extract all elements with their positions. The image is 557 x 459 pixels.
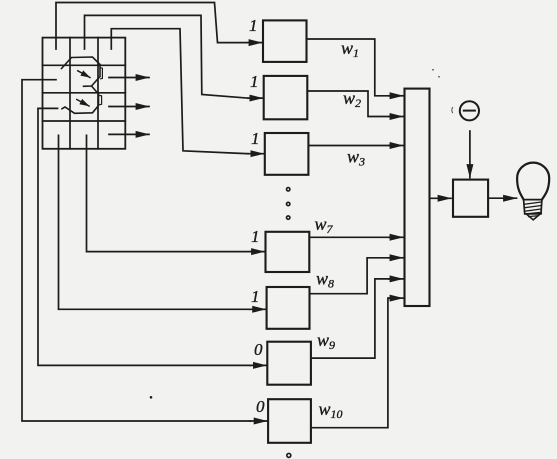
stray dot speck: [150, 396, 153, 399]
arrow into A8: [250, 308, 266, 310]
lamp bulb glass: [517, 163, 549, 200]
grid row line 3: [43, 120, 126, 122]
wire w3 from A3 to summator: [308, 145, 389, 147]
arrow w8 into summator: [389, 257, 403, 259]
lamp tip hatch: [529, 215, 539, 218]
arrow into A3: [248, 153, 264, 155]
arrow into A9: [250, 364, 266, 366]
unit A8 box: [267, 287, 310, 329]
wire tap left row2 to A10: [22, 80, 250, 421]
svg-text:0: 0: [254, 340, 263, 359]
wire tap top cell3 to A3: [111, 29, 248, 154]
lamp tip: [526, 214, 540, 220]
wire tap bottom col1 to A8: [59, 135, 251, 309]
bracket mark lower: [100, 96, 102, 105]
wire w7 from A7 to summator: [309, 236, 389, 238]
unit A1 box: [263, 20, 307, 62]
speck dot 2: [438, 76, 440, 78]
lamp screw thread 4: [526, 212, 542, 214]
arrow w1 into summator: [389, 95, 403, 97]
svg-text:w7: w7: [315, 214, 334, 236]
arrow w7 into summator: [389, 236, 403, 238]
svg-text:w3: w3: [347, 147, 365, 169]
arrow into A7: [250, 251, 265, 253]
grid right output arrow row3: [109, 106, 149, 108]
threshold arrow down into unit: [469, 131, 471, 178]
wire tap bottom col2 to A7: [87, 135, 251, 251]
svg-text:0: 0: [256, 397, 265, 416]
wire tap top cell1 to A1: [56, 3, 248, 50]
wire w10 from A10 to summator: [311, 298, 389, 428]
svg-text:1: 1: [251, 227, 260, 246]
lamp screw base: [524, 200, 542, 214]
grid column line 2: [97, 38, 99, 149]
wire summator to output unit: [430, 197, 452, 199]
unit A9 box: [267, 342, 311, 385]
wire tap top cell2 to A2: [85, 15, 249, 98]
svg-text:w9: w9: [317, 330, 335, 352]
svg-text:1: 1: [250, 72, 259, 91]
lamp screw thread 2: [524, 206, 541, 208]
numeral 3 stimulus outline: [62, 57, 101, 113]
speck near summator top: [451, 108, 454, 113]
arrow into A1: [248, 42, 262, 44]
wire w9 from A9 to summator: [311, 279, 389, 358]
speck dot 1: [432, 69, 434, 71]
wire w2 from A2 to summator: [307, 91, 389, 117]
wire output unit to lamp: [488, 197, 516, 199]
bottom small circle mark: [287, 453, 291, 457]
retina grid frame: [43, 38, 126, 149]
grid right output arrow row2: [109, 77, 149, 79]
arrow into A10: [250, 420, 267, 422]
ellipsis dot 2: [287, 202, 290, 205]
arrow w3 into summator: [389, 145, 403, 147]
output unit box: [453, 180, 488, 217]
arrow w9 into summator: [389, 278, 403, 280]
wire tap left row3 to A9: [38, 108, 250, 365]
light arrow lower: [77, 100, 89, 107]
arrow w10 into summator: [389, 297, 403, 299]
svg-text:w10: w10: [319, 399, 343, 421]
unit A10 box: [268, 399, 311, 443]
threshold circle: [460, 101, 479, 120]
unit A7 box: [266, 232, 310, 272]
svg-text:w8: w8: [316, 269, 334, 291]
svg-text:1: 1: [249, 16, 258, 35]
ellipsis dot 1: [287, 188, 290, 191]
ellipsis dot 3: [287, 216, 290, 219]
arrow into A2: [248, 97, 263, 99]
light arrow upper: [78, 71, 90, 78]
grid row line 2: [43, 92, 126, 94]
grid column line 1: [69, 38, 71, 149]
grid row line 1: [43, 64, 126, 66]
threshold minus sign: [464, 110, 475, 112]
svg-text:w1: w1: [341, 38, 359, 60]
unit A2 box: [264, 76, 308, 119]
grid right output arrow row4: [109, 133, 149, 135]
lamp screw thread 1: [524, 202, 542, 204]
bracket mark upper: [101, 68, 103, 79]
unit A3 box: [265, 133, 309, 175]
svg-text:1: 1: [251, 287, 260, 306]
lamp screw thread 3: [525, 209, 542, 211]
wire w8 from A8 to summator: [310, 258, 390, 294]
summator box: [405, 89, 430, 306]
wire w1 from A1 to summator: [307, 39, 390, 96]
svg-text:1: 1: [251, 129, 260, 148]
arrow w2 into summator: [389, 116, 403, 118]
